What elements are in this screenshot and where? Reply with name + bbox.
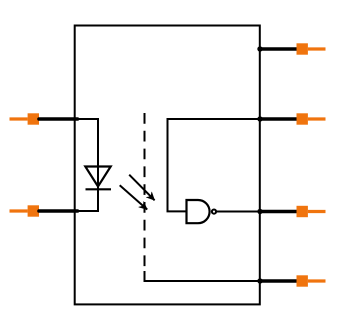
- pin 5 lead (right bottom, row y=281): [259, 279, 297, 283]
- pin 2 external lead (orange, left lower, row y=211): [10, 209, 28, 212]
- LED D1 triangle (anode up, pointing down): [85, 167, 110, 187]
- galvanic isolation barrier (dashed line): [144, 113, 146, 266]
- pin 7 external lead (orange): [308, 117, 326, 120]
- pin 5 external lead (orange): [308, 279, 326, 282]
- light emission arrow 1 head: [146, 192, 154, 200]
- light emission arrow 2 head: [139, 201, 148, 209]
- pin 8 junction dot: [257, 46, 262, 51]
- pin 8 external lead (orange): [308, 47, 326, 50]
- pin 1 terminal pad (orange): [28, 113, 39, 124]
- pin 6 terminal pad (orange): [297, 206, 308, 217]
- pin 8 terminal pad (orange): [297, 43, 308, 54]
- pin 6 junction dot: [257, 209, 262, 214]
- wire: barrier bottom to pin 5: [145, 271, 261, 281]
- pin 8 lead (right top, row y=49): [259, 47, 297, 51]
- pin 7 junction dot: [257, 116, 262, 121]
- wire: gate output to pin 6: [217, 211, 260, 213]
- light emission arrow 1 (upper) shaft: [129, 175, 154, 201]
- wire: pin 7 to gate input (top run and down): [168, 119, 261, 211]
- pin 5 junction dot: [257, 278, 262, 283]
- pin 6 external lead (orange): [308, 210, 326, 213]
- pin 2 lead (cathode, black thick): [39, 209, 78, 213]
- light emission arrow 2 (lower) shaft: [120, 185, 148, 209]
- wire anode: pin 1 to LED top: [74, 119, 98, 211]
- optocoupler package outline U1: [75, 26, 260, 305]
- pin 5 terminal pad (orange): [297, 275, 308, 286]
- LED D1 cathode bar: [86, 188, 112, 190]
- gate inverting bubble: [212, 210, 216, 214]
- detector gate U2 body (D shape): [187, 200, 210, 223]
- pin 7 lead (right upper-middle, row y=119): [259, 117, 297, 121]
- pin 1 external lead (orange, left upper, row y=119): [10, 117, 28, 120]
- pin 1 lead (anode, black thick): [39, 117, 78, 121]
- pin 6 lead (right lower-middle, row y=211): [259, 210, 297, 214]
- pin 2 terminal pad (orange): [28, 205, 39, 216]
- pin 7 terminal pad (orange): [297, 113, 308, 124]
